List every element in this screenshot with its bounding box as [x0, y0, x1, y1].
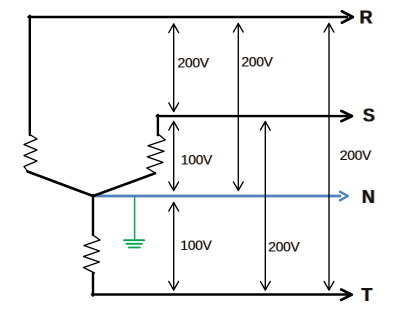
- svg-text:R: R: [360, 8, 373, 28]
- label: 100V between N and T: [180, 238, 214, 253]
- wire: diagonal from left resistor to star node: [28, 172, 94, 197]
- measurement arrow: R to S double arrow (200V): [169, 24, 179, 112]
- label: 200V between S and T: [268, 240, 302, 255]
- svg-text:200V: 200V: [340, 148, 372, 163]
- arrowhead: phase S line arrow: [341, 111, 352, 121]
- svg-text:T: T: [361, 285, 372, 305]
- ground: earth bar 3: [129, 247, 140, 249]
- arrowhead: phase R line arrow: [342, 11, 353, 22]
- measurement arrow: R to N double arrow (200V): [233, 24, 243, 191]
- wire: phase T bottom horizontal line: [92, 293, 347, 295]
- node: star point junction, vertical wire down: [92, 195, 94, 235]
- wire: vertical stub from S line to middle resistor: [157, 115, 159, 135]
- ground: earth symbol stem (green): [134, 197, 136, 240]
- label: 200V between R and N: [241, 55, 275, 70]
- measurement arrow: S to N double arrow (100V): [169, 122, 179, 191]
- measurement arrow: N to T double arrow (100V): [169, 203, 179, 291]
- label: phase S: [362, 106, 376, 126]
- ground: earth bar 2: [126, 243, 141, 245]
- svg-text:S: S: [363, 106, 375, 126]
- label: phase T: [361, 285, 374, 305]
- measurement arrow: S to T double arrow (200V): [260, 122, 270, 291]
- arrowhead: neutral N blue arrow: [340, 192, 348, 201]
- label: 200V right side R to T: [339, 148, 373, 163]
- label: 100V between S and N: [180, 152, 214, 167]
- label: 200V between R and S: [177, 55, 211, 70]
- measurement arrow: R to T double arrow (200V): [324, 24, 334, 291]
- svg-text:100V: 100V: [180, 238, 212, 253]
- wire: neutral N blue line: [93, 195, 341, 198]
- svg-text:200V: 200V: [242, 55, 274, 70]
- svg-text:200V: 200V: [268, 240, 300, 255]
- wire: diagonal from middle resistor to star node: [93, 173, 155, 196]
- wire: from bottom resistor down to T line: [92, 274, 94, 296]
- svg-text:N: N: [362, 187, 375, 207]
- ground: earth bar 1: [124, 239, 144, 241]
- label: phase R: [359, 8, 374, 28]
- resistor: left phase resistor zigzag: [24, 135, 37, 172]
- arrowhead: phase T line arrow: [341, 290, 352, 300]
- wire: phase R top horizontal line: [29, 16, 348, 18]
- svg-text:200V: 200V: [178, 55, 210, 70]
- label: phase N: [361, 187, 376, 207]
- svg-text:100V: 100V: [181, 152, 213, 167]
- resistor: bottom phase resistor zigzag: [84, 235, 101, 273]
- wire: left vertical drop from R line to resistor: [29, 16, 31, 135]
- wire: phase S horizontal line: [157, 115, 347, 117]
- resistor: middle phase resistor zigzag: [147, 135, 166, 173]
